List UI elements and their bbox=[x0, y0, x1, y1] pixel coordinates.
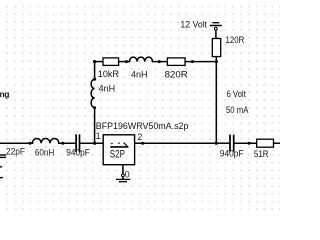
svg-text:0: 0 bbox=[125, 169, 130, 179]
svg-text:2: 2 bbox=[137, 132, 142, 142]
svg-text:6 Volt: 6 Volt bbox=[227, 89, 247, 99]
resistor R4 51R box bbox=[257, 139, 274, 147]
svg-text:120R: 120R bbox=[226, 35, 245, 45]
ground GND1 bars bbox=[117, 178, 130, 180]
capacitor C2 940pF plates bbox=[75, 135, 77, 151]
wire vertical node B down to lower wire bbox=[215, 62, 217, 144]
node dot after L1 bbox=[61, 142, 64, 145]
wire edge stub clipped bbox=[0, 166, 1, 168]
wire R3 to node B bbox=[215, 57, 217, 62]
inductor L3 4nH coil bbox=[129, 57, 152, 62]
wire R1 to L3 bbox=[119, 61, 130, 63]
svg-text:60nH: 60nH bbox=[35, 147, 54, 157]
wire L3 to R2 bbox=[153, 61, 168, 63]
wire from L1 to C2 bbox=[59, 142, 75, 144]
node dot after R1 bbox=[125, 60, 128, 63]
svg-text:ng: ng bbox=[0, 89, 9, 99]
wire R2 to node B bbox=[185, 61, 216, 63]
svg-text:10kR: 10kR bbox=[98, 69, 120, 79]
node dot L2 bottom bbox=[93, 106, 96, 109]
svg-text:4nH: 4nH bbox=[131, 70, 148, 80]
node A junction dot bbox=[93, 142, 96, 145]
inductor L2 4nH vertical coil bbox=[91, 79, 95, 107]
wire S2P pin2 to node B bbox=[135, 142, 217, 144]
capacitor C3 940pF plates bbox=[229, 136, 231, 151]
wire vertical feedback lower bbox=[94, 107, 96, 143]
wire S2P bottom pin to ground bbox=[122, 165, 124, 174]
svg-text:BFP196WRV50mA.s2p: BFP196WRV50mA.s2p bbox=[96, 121, 189, 131]
svg-text:1: 1 bbox=[96, 131, 101, 141]
svg-text:940pF: 940pF bbox=[220, 148, 244, 158]
ground edge bar clipped bbox=[0, 177, 2, 179]
S2P arrow symbol bbox=[111, 146, 128, 148]
S2P device U1 box bbox=[103, 135, 134, 165]
svg-text:4nH: 4nH bbox=[99, 84, 116, 94]
capacitor edge plates left clipped bbox=[0, 154, 6, 156]
wire R4 to right edge bbox=[274, 142, 281, 144]
wire from C2 to node A bbox=[80, 142, 103, 144]
node dot top corner bbox=[93, 60, 96, 63]
svg-text:51R: 51R bbox=[254, 149, 269, 159]
wire lower main left segment bbox=[0, 142, 32, 144]
svg-text:820R: 820R bbox=[165, 70, 189, 80]
inductor L1 60nH coil bbox=[32, 138, 58, 143]
power supply V1 12 Volt symbol bbox=[213, 22, 219, 24]
svg-text:12 Volt: 12 Volt bbox=[180, 20, 207, 30]
node dot after R2 bbox=[191, 60, 194, 63]
node dot after L3 bbox=[158, 60, 161, 63]
resistor R3 120R box vertical bbox=[212, 39, 220, 57]
node 0 open circle bbox=[122, 174, 125, 177]
wire vertical feedback upper bbox=[94, 62, 96, 80]
resistor R2 820R box bbox=[167, 58, 185, 66]
wire C3 to R4 bbox=[235, 142, 257, 144]
resistor R1 10kR box bbox=[103, 58, 119, 66]
svg-text:940pF: 940pF bbox=[66, 147, 90, 157]
node B lower junction dot bbox=[215, 142, 218, 145]
wire top branch to R1 bbox=[95, 61, 103, 63]
svg-text:22pF: 22pF bbox=[6, 147, 25, 157]
svg-text:50 mA: 50 mA bbox=[226, 105, 248, 115]
node dot before R4 bbox=[248, 142, 251, 145]
svg-text:S2P: S2P bbox=[110, 148, 125, 160]
node dot lower left bbox=[29, 142, 32, 145]
node dot L2 top bbox=[93, 78, 96, 81]
node dot S2P pin2 bbox=[141, 142, 144, 145]
wire node B to C3 bbox=[216, 142, 229, 144]
node B upper junction dot bbox=[215, 60, 218, 63]
